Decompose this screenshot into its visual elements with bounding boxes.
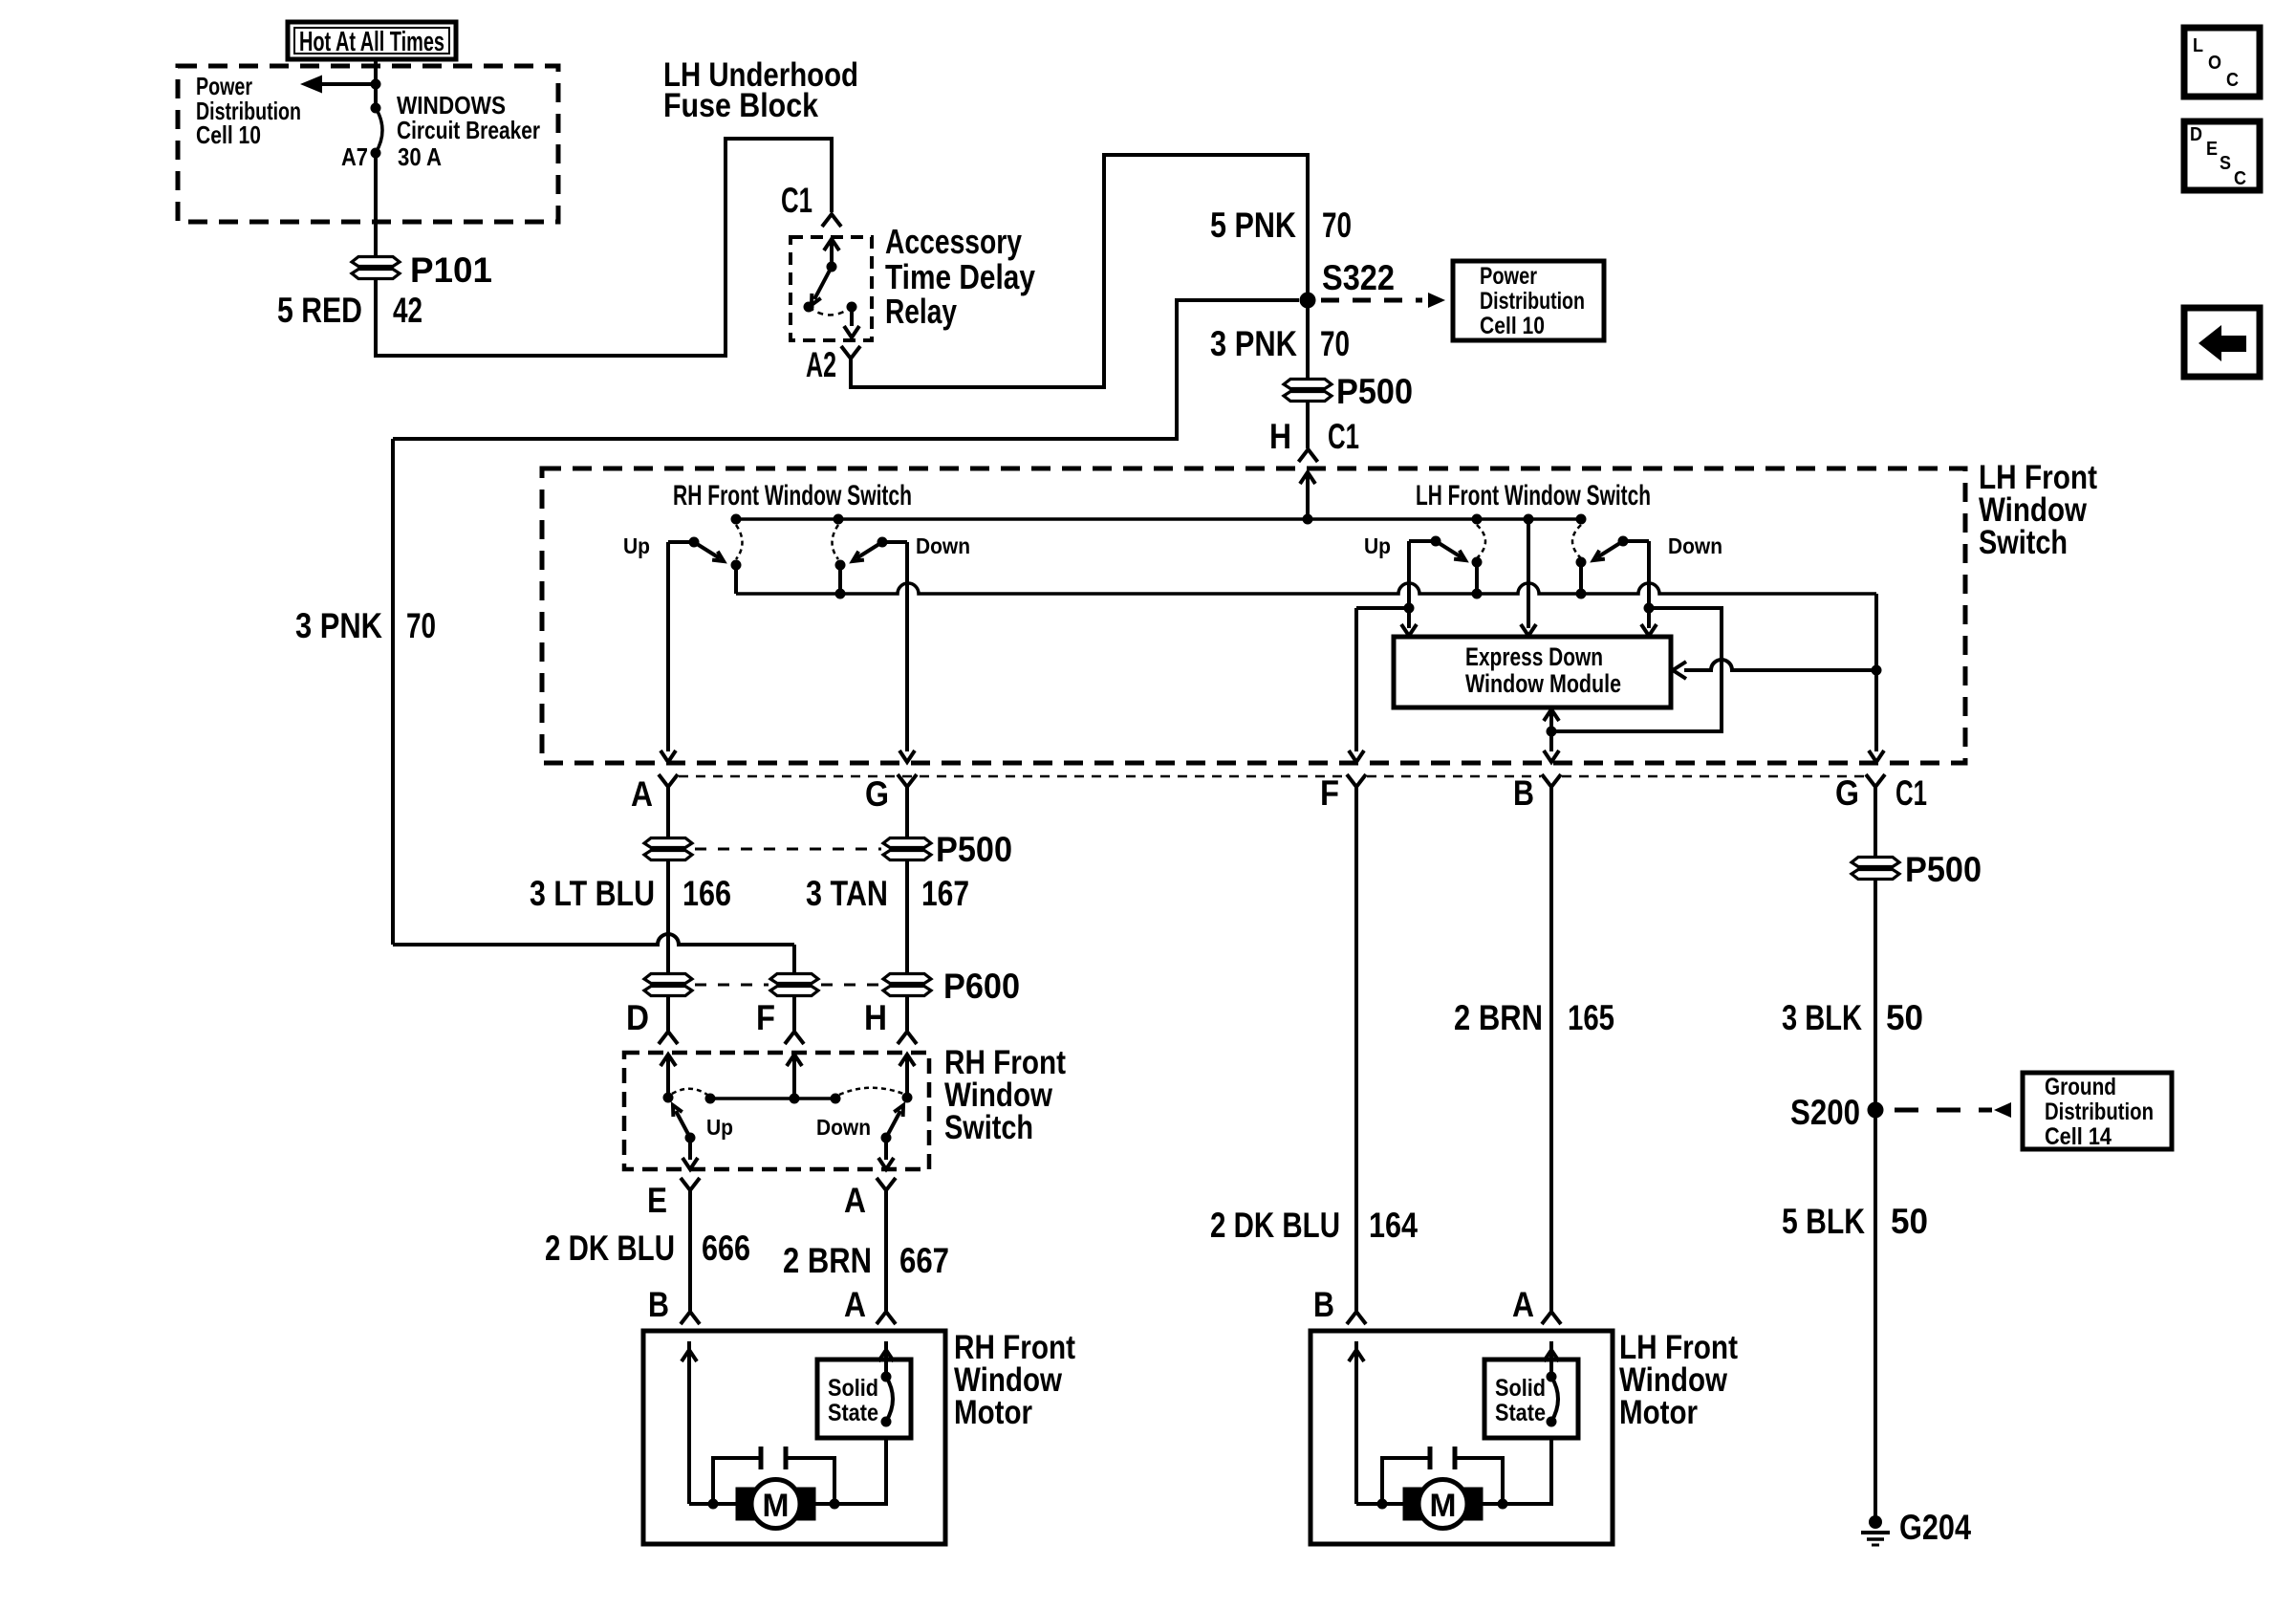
- LH motor thermal contact: [1547, 1372, 1559, 1427]
- pin H of RH front window switch: [898, 1032, 917, 1044]
- svg-text:Up: Up: [706, 1115, 733, 1140]
- RH up dashed travel arc: [736, 525, 743, 559]
- svg-text:LH Front Window Switch: LH Front Window Switch: [1416, 480, 1651, 511]
- dashed link P600 mid-right: [821, 984, 881, 987]
- svg-text:A2: A2: [806, 345, 836, 384]
- LH middle supply dot: [1524, 514, 1534, 525]
- RH switch supply junction (F): [790, 1094, 800, 1104]
- label Solid State (LH): [1495, 1375, 1546, 1426]
- svg-text:E: E: [2206, 139, 2218, 160]
- bottom switch up arm: [673, 1105, 696, 1143]
- svg-text:S200: S200: [1790, 1093, 1860, 1132]
- wire 2 DK BLU 164 (pin F to LH motor): [1354, 787, 1358, 1311]
- label Express Down Window Module: [1465, 642, 1621, 698]
- LH motor: bottom lead B side: [1356, 1502, 1405, 1506]
- wire 5 PNK 70 from A2 to S322: [851, 155, 1308, 387]
- back arrow nav box: [2184, 308, 2260, 377]
- LH down switch arm: [1593, 541, 1623, 560]
- wire pin A to P500: [666, 787, 670, 838]
- svg-text:H: H: [1269, 417, 1291, 456]
- Solid State box (LH motor): [1484, 1360, 1578, 1438]
- svg-text:M: M: [1430, 1488, 1457, 1524]
- LH motor: B lead: [1349, 1341, 1364, 1504]
- RH motor thermal contact: [881, 1372, 894, 1427]
- svg-text:P600: P600: [943, 967, 1020, 1006]
- LH up contact wire: [1409, 541, 1436, 606]
- svg-text:B: B: [1313, 1285, 1334, 1324]
- label Power Distribution Cell 10 (fuse block): [196, 72, 301, 149]
- LOC nav box: [2184, 28, 2260, 97]
- svg-text:2 BRN: 2 BRN: [783, 1241, 872, 1280]
- label Solid State (RH): [828, 1375, 878, 1426]
- junction RH down on bus: [835, 589, 846, 599]
- dashed reference arrow to Power Distribution Cell 10: [1321, 293, 1445, 308]
- pin A of LH front window switch: [659, 774, 678, 787]
- wire 2 BRN 165 (pin B to LH motor): [1549, 787, 1553, 1311]
- svg-text:50: 50: [1886, 998, 1923, 1037]
- svg-text:RH Front Window Switch: RH Front Window Switch: [673, 480, 912, 511]
- svg-text:Accessory: Accessory: [885, 222, 1022, 261]
- svg-text:Cell 10: Cell 10: [1480, 313, 1545, 339]
- wire: bus corner down to module right input: [1869, 594, 1884, 762]
- svg-text:G204: G204: [1899, 1508, 1971, 1547]
- RH down switch arm: [853, 542, 882, 561]
- svg-text:Circuit Breaker: Circuit Breaker: [397, 116, 540, 144]
- svg-text:5 BLK: 5 BLK: [1782, 1202, 1865, 1241]
- label LH Front Window Motor: [1619, 1329, 1738, 1431]
- wire pin G C1 to P500: [1874, 787, 1877, 858]
- wire 3 PNK 70 from S322 to P500: [1306, 308, 1310, 380]
- wire 3 TAN 167: [905, 859, 909, 974]
- pin A of RH front window switch (bottom): [877, 1178, 896, 1190]
- svg-text:Down: Down: [1668, 533, 1722, 558]
- svg-text:S322: S322: [1322, 258, 1395, 297]
- wire 5 BLK 50: [1874, 1110, 1877, 1520]
- relay: left contact: [804, 302, 814, 313]
- top box pin arrows A G: [661, 751, 915, 762]
- svg-text:Fuse Block: Fuse Block: [663, 87, 818, 124]
- relay: input arrow and coil contact: [824, 239, 839, 272]
- label Ground Distribution Cell 14: [2045, 1074, 2154, 1150]
- wire P600 to pin F (RH switch): [792, 995, 796, 1031]
- svg-text:A7: A7: [341, 142, 368, 171]
- svg-text:Distribution: Distribution: [1480, 288, 1585, 315]
- label LH Front Window Switch (right): [1979, 459, 2097, 561]
- connector P500 right: [883, 838, 931, 848]
- pin F of RH front window switch: [785, 1032, 804, 1044]
- svg-text:O: O: [2208, 53, 2221, 74]
- pin H C1 of LH front window switch: [1299, 449, 1318, 462]
- LH motor: A lead into Solid State: [1544, 1341, 1559, 1373]
- svg-text:A: A: [631, 774, 653, 814]
- svg-text:2 DK BLU: 2 DK BLU: [1210, 1206, 1340, 1245]
- wire: module right input: [1673, 660, 1876, 679]
- label Accessory Time Delay Relay: [885, 222, 1035, 331]
- svg-text:P500: P500: [1336, 372, 1413, 411]
- dashed travel arc (down, bottom switch): [839, 1088, 903, 1095]
- junction LH down on bus: [1576, 589, 1587, 599]
- svg-text:C1: C1: [781, 181, 812, 220]
- svg-text:2 BRN: 2 BRN: [1454, 998, 1543, 1037]
- LH motor M: [1403, 1480, 1483, 1529]
- RH switch D contact wire: [661, 1055, 676, 1098]
- RH switch supply end dots: [705, 1094, 841, 1104]
- LH up lower contact to bus: [1472, 557, 1483, 595]
- svg-text:Ground: Ground: [2045, 1074, 2116, 1100]
- wire: H input to supply bus: [1300, 472, 1315, 519]
- pin G C1 of LH front window switch: [1866, 774, 1885, 787]
- dashed link P500 pair: [695, 848, 881, 851]
- RH down lower contact: [835, 560, 846, 595]
- svg-text:P500: P500: [936, 830, 1012, 869]
- RH motor: bottom lead B side: [689, 1502, 738, 1506]
- svg-text:667: 667: [899, 1241, 949, 1280]
- svg-text:S: S: [2220, 153, 2231, 174]
- wire: module bottom pin to pin B: [1544, 709, 1559, 762]
- dashed reference arrow to Ground Distribution Cell 14: [1895, 1102, 2011, 1118]
- svg-text:42: 42: [393, 291, 422, 330]
- svg-text:G: G: [1835, 773, 1859, 813]
- svg-text:H: H: [864, 998, 887, 1037]
- RH switch F supply wire: [787, 1055, 802, 1099]
- RH up lower contact: [731, 560, 742, 595]
- svg-text:Down: Down: [816, 1115, 871, 1140]
- wire 3 PNK 70 branch from S322 to P600: [393, 300, 1299, 974]
- connector P600 middle: [770, 974, 818, 984]
- pin A of RH front window motor: [877, 1312, 896, 1324]
- LH Front Window Motor box: [1310, 1331, 1613, 1544]
- pin C1 of relay: [822, 214, 841, 227]
- svg-text:Down: Down: [916, 533, 970, 558]
- LH down supply dot: [1576, 514, 1587, 525]
- svg-text:B: B: [1513, 773, 1534, 813]
- svg-text:70: 70: [406, 606, 436, 645]
- svg-text:F: F: [1320, 773, 1339, 813]
- dashed travel arc (up, bottom switch): [672, 1089, 707, 1095]
- svg-text:Time Delay: Time Delay: [885, 257, 1035, 296]
- connector P500 (ground): [1852, 858, 1899, 867]
- connector line C1 (thin dashed): [679, 775, 1864, 778]
- splice S322: [1300, 293, 1316, 309]
- wire 3 BLK 50: [1874, 879, 1877, 1102]
- ground bus of switches (to pin G C1): [736, 583, 1876, 594]
- RH motor capacitor: [708, 1447, 840, 1510]
- svg-text:L: L: [2193, 35, 2203, 56]
- svg-text:666: 666: [702, 1229, 750, 1268]
- circuit breaker WINDOWS 30A: [371, 103, 383, 159]
- svg-text:Hot At All Times: Hot At All Times: [299, 27, 444, 57]
- label Power Distribution Cell 10 (reference): [1480, 263, 1585, 339]
- wire: breaker to P101: [374, 153, 378, 255]
- label WINDOWS Circuit Breaker 30 A: [397, 91, 540, 171]
- svg-text:C1: C1: [1328, 417, 1359, 456]
- svg-text:Switch: Switch: [1979, 524, 2068, 561]
- label RH Front Window Motor: [954, 1329, 1075, 1431]
- ground G204: [1861, 1515, 1890, 1545]
- svg-text:5 PNK: 5 PNK: [1210, 206, 1296, 245]
- svg-text:C1: C1: [1895, 773, 1927, 813]
- RH up switch arm: [694, 542, 724, 561]
- svg-text:P101: P101: [410, 250, 492, 290]
- RH switch up contact wire: [668, 542, 694, 751]
- svg-text:Up: Up: [1364, 533, 1391, 558]
- LH Front Window Switch dashed box: [542, 468, 1965, 763]
- pin A2 of relay: [841, 346, 860, 359]
- wire: supply to Express Down Window Module: [1521, 519, 1536, 636]
- wire 2 BRN 667: [884, 1190, 888, 1311]
- splice S200: [1868, 1102, 1884, 1119]
- arrow to Power Distribution Cell 10 (left): [316, 82, 376, 86]
- connector P101: [352, 257, 400, 267]
- svg-text:A: A: [844, 1181, 866, 1220]
- relay: right contact to A2 output: [844, 302, 859, 338]
- svg-text:30 A: 30 A: [398, 142, 442, 171]
- svg-text:Up: Up: [623, 533, 650, 558]
- wire: down output loop to module bottom: [1553, 608, 1722, 731]
- LH up dashed travel arc: [1477, 525, 1485, 558]
- wire: LH down output into module: [1641, 603, 1657, 637]
- RH down dashed travel arc: [833, 525, 839, 559]
- pin G of LH front window switch: [898, 774, 917, 787]
- svg-text:M: M: [763, 1488, 790, 1524]
- wire: battery feed from Hot At All Times into fuse block: [374, 58, 378, 108]
- svg-text:3 BLK: 3 BLK: [1782, 998, 1862, 1037]
- RH down contact dot: [877, 537, 888, 548]
- svg-text:G: G: [865, 774, 889, 814]
- LH up switch arm: [1436, 541, 1465, 560]
- svg-text:A: A: [844, 1285, 866, 1324]
- svg-text:P500: P500: [1905, 850, 1982, 889]
- svg-text:Express Down: Express Down: [1465, 642, 1603, 671]
- LH motor capacitor: [1377, 1447, 1508, 1510]
- svg-text:Motor: Motor: [954, 1394, 1032, 1431]
- svg-text:Power: Power: [1480, 263, 1537, 290]
- RH Front Window Motor box: [643, 1331, 945, 1544]
- svg-text:State: State: [1495, 1400, 1546, 1426]
- RH motor: A lead into Solid State: [878, 1341, 894, 1373]
- RH switch H contact dot: [902, 1093, 913, 1103]
- pin F of LH front window switch: [1347, 774, 1366, 787]
- svg-text:3 LT BLU: 3 LT BLU: [530, 874, 655, 913]
- wire 3 LT BLU 166: [666, 859, 670, 974]
- Ground Distribution Cell 14 reference box: [2023, 1073, 2172, 1149]
- RH motor M: [736, 1480, 815, 1529]
- RH down supply dot: [834, 514, 844, 525]
- RH switch D contact dot: [663, 1093, 674, 1103]
- LH up supply dot: [1472, 514, 1483, 525]
- svg-text:D: D: [626, 998, 649, 1037]
- svg-text:Relay: Relay: [885, 292, 957, 331]
- junction LH up on bus: [1472, 589, 1483, 599]
- wire 2 DK BLU 666: [688, 1190, 692, 1311]
- wire: LH up output into module and to pin F: [1349, 603, 1417, 763]
- bottom switch up output to pin E: [682, 1138, 698, 1169]
- svg-text:A: A: [1512, 1285, 1534, 1324]
- pin A of LH front window motor: [1542, 1312, 1561, 1324]
- LH down contact wire: [1623, 541, 1649, 606]
- Power Distribution Cell 10 reference box: [1453, 261, 1604, 340]
- svg-text:D: D: [2190, 124, 2202, 145]
- pin B of LH front window motor: [1347, 1312, 1366, 1324]
- svg-text:C: C: [2234, 168, 2246, 189]
- bottom switch down arm: [881, 1105, 904, 1143]
- svg-text:Cell 10: Cell 10: [196, 120, 261, 149]
- Express Down Window Module box: [1394, 637, 1671, 707]
- wire P600 to pin D: [666, 995, 670, 1031]
- Hot At All Times box: [288, 22, 456, 59]
- svg-text:3 TAN: 3 TAN: [806, 874, 888, 913]
- svg-text:164: 164: [1369, 1206, 1418, 1245]
- pin B of RH front window motor: [681, 1312, 700, 1324]
- RH switch supply bar: [710, 1097, 835, 1100]
- svg-text:Motor: Motor: [1619, 1394, 1698, 1431]
- junction on battery feed: [371, 79, 381, 90]
- RH up contact dot: [689, 537, 700, 548]
- wire pin G to P500: [905, 787, 909, 838]
- svg-text:50: 50: [1891, 1202, 1928, 1241]
- wire from P500 to pin H C1: [1306, 401, 1310, 448]
- RH switch H contact wire: [899, 1055, 915, 1098]
- connector P500 (H C1 feed): [1284, 380, 1332, 389]
- LH down contact dot: [1618, 536, 1629, 547]
- connector P500 left: [644, 838, 692, 848]
- svg-text:Distribution: Distribution: [2045, 1099, 2154, 1125]
- connector P600 right: [883, 974, 931, 984]
- RH motor: lead from solid state to brush: [815, 1438, 886, 1504]
- svg-text:Solid: Solid: [828, 1375, 878, 1402]
- LH down dashed travel arc: [1572, 525, 1581, 558]
- label LH Underhood Fuse Block: [663, 56, 858, 124]
- svg-text:B: B: [648, 1285, 669, 1324]
- switch supply bus: [736, 517, 1583, 521]
- RH Front Window Switch dashed box: [624, 1053, 929, 1169]
- svg-text:C: C: [2226, 70, 2239, 91]
- svg-text:Window Module: Window Module: [1465, 669, 1621, 698]
- svg-text:F: F: [756, 998, 775, 1037]
- svg-text:166: 166: [682, 874, 731, 913]
- svg-text:State: State: [828, 1400, 878, 1426]
- svg-text:167: 167: [921, 874, 969, 913]
- svg-text:3 PNK: 3 PNK: [295, 606, 382, 645]
- pin B of LH front window switch: [1542, 774, 1561, 787]
- RH switch down contact wire: [882, 542, 907, 751]
- svg-text:70: 70: [1320, 324, 1350, 363]
- junction on supply bus (H): [1303, 514, 1313, 525]
- svg-text:Solid: Solid: [1495, 1375, 1546, 1402]
- connector P600 left: [644, 974, 692, 984]
- relay: movable arm: [812, 267, 832, 305]
- label RH Front Window Switch (side): [944, 1044, 1066, 1146]
- wire 5 RED 42 from P101 to relay C1: [376, 139, 832, 356]
- svg-text:70: 70: [1322, 206, 1352, 245]
- RH motor: B lead: [682, 1341, 697, 1504]
- Solid State box (RH motor): [817, 1360, 911, 1438]
- LH motor: lead from solid state to brush: [1483, 1438, 1551, 1504]
- svg-text:3 PNK: 3 PNK: [1210, 324, 1297, 363]
- pin E of RH front window switch: [681, 1178, 700, 1190]
- DESC nav box: [2184, 121, 2260, 190]
- RH up supply dot: [731, 514, 742, 525]
- wire P600 to pin H: [905, 995, 909, 1031]
- svg-text:2 DK BLU: 2 DK BLU: [545, 1229, 675, 1268]
- LH up contact dot: [1431, 536, 1441, 547]
- relay: dashed travel arc: [809, 307, 852, 315]
- LH Underhood Fuse Block dashed box: [178, 66, 558, 222]
- bottom switch down output to pin A: [878, 1138, 894, 1169]
- svg-text:Switch: Switch: [944, 1109, 1033, 1146]
- svg-text:Cell 14: Cell 14: [2045, 1123, 2112, 1150]
- LH down lower contact to bus: [1576, 557, 1587, 595]
- svg-text:E: E: [647, 1181, 667, 1220]
- Accessory Time Delay Relay dashed box: [791, 237, 872, 340]
- pin D of RH front window switch: [659, 1032, 678, 1044]
- svg-text:5 RED: 5 RED: [277, 291, 362, 330]
- svg-text:165: 165: [1568, 998, 1614, 1037]
- dashed link P600 left-mid: [695, 984, 769, 987]
